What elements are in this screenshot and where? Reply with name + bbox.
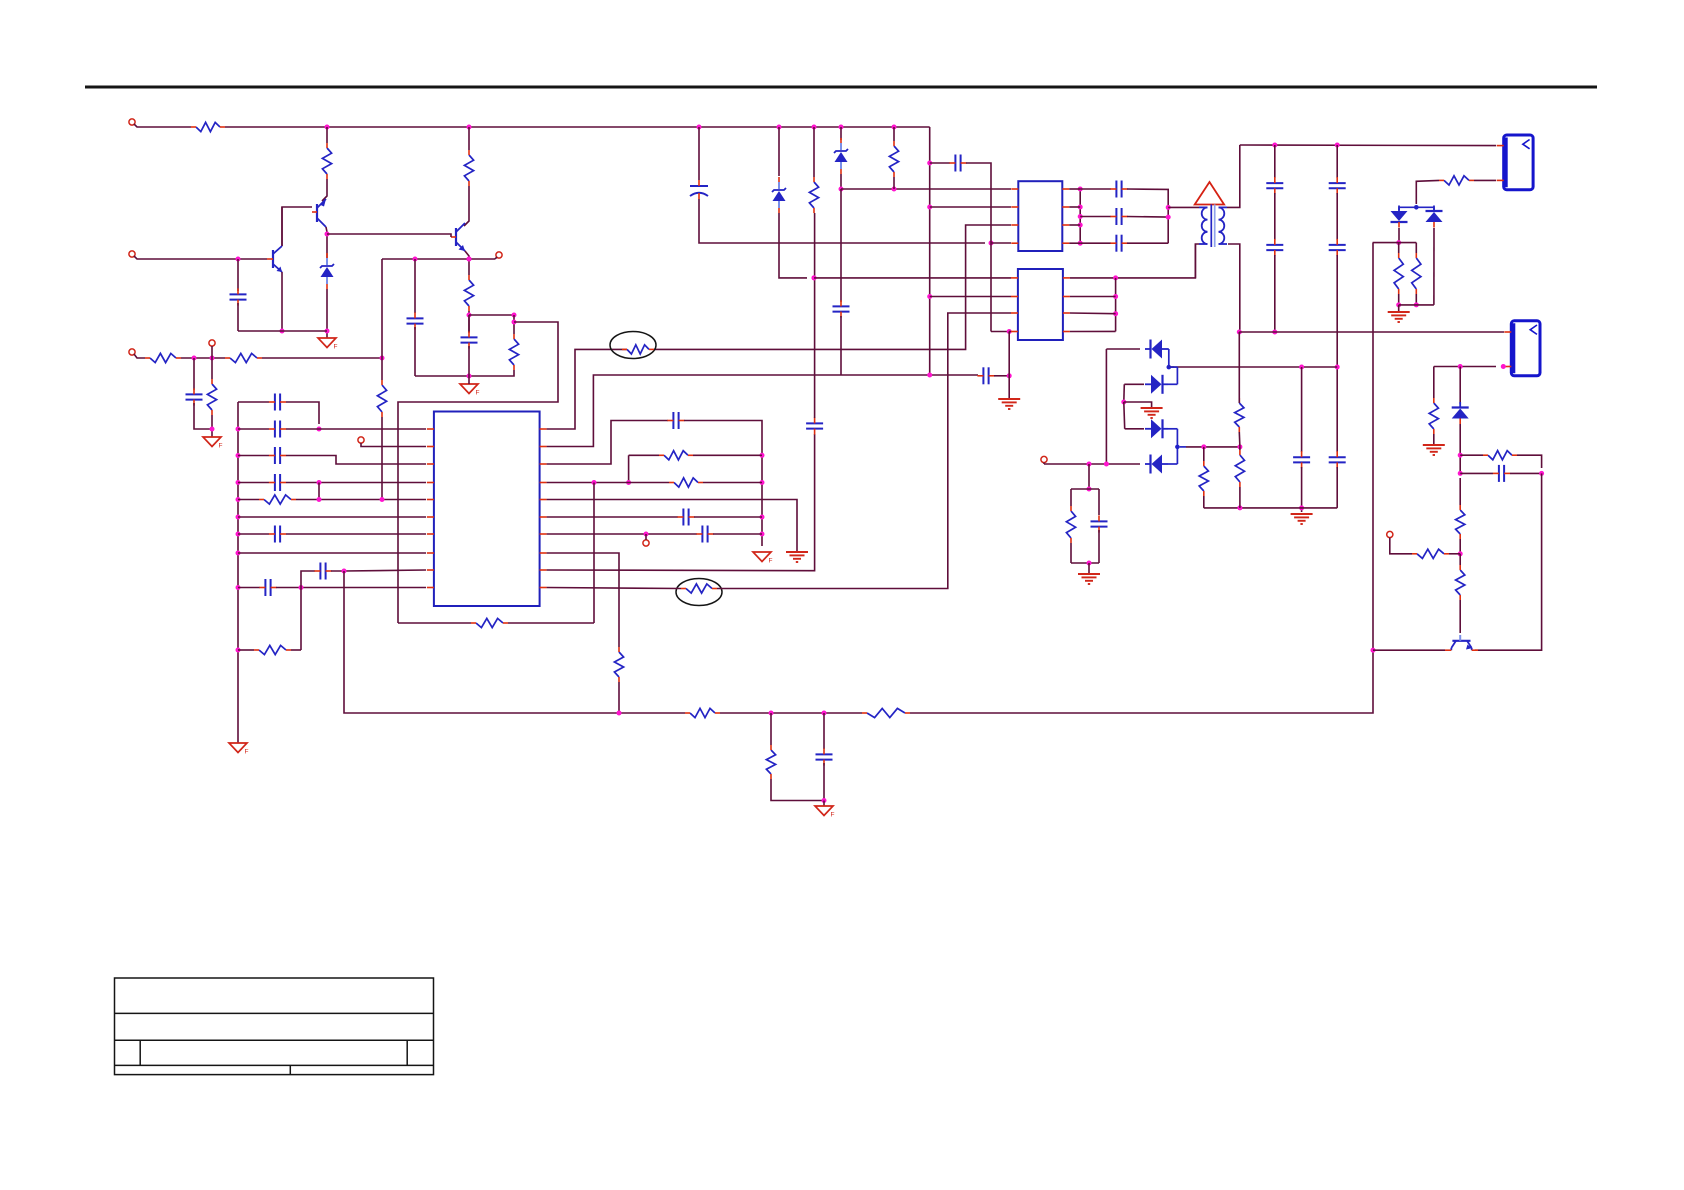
wire row331 — [991, 331, 1009, 333]
IC U1 right pin 1 — [540, 428, 547, 430]
ground E2 — [998, 399, 1020, 409]
junction Q3 emitter row — [467, 257, 472, 262]
IC U2 left pin 4 — [1011, 242, 1018, 244]
IC U3 right pin 2 — [1063, 296, 1070, 298]
junction x929 y163 — [927, 161, 932, 166]
IC U2 right pin 2 — [1062, 206, 1069, 208]
transformer T1 top leads — [1199, 206, 1227, 208]
capacitor C5 — [269, 394, 286, 411]
wire x415 col — [414, 259, 416, 313]
junction row367 x1301 — [1299, 365, 1304, 370]
capacitor C12 — [977, 367, 994, 384]
wire row243 to IC1 — [991, 242, 1011, 244]
IC U2 left pin 2 — [1011, 206, 1018, 208]
wire busrow650 a — [238, 649, 254, 651]
diode D7 — [1452, 402, 1469, 424]
IC U2 box — [1018, 181, 1062, 251]
wire x779 a — [778, 127, 780, 176]
wire x1541 col — [1475, 473, 1542, 650]
wire top rail y127 — [225, 126, 930, 128]
junction row189 x841 — [839, 187, 844, 192]
svg-text:F: F — [245, 749, 249, 756]
wire x1274 b — [1274, 193, 1276, 240]
wire x514 branch — [513, 315, 515, 334]
wire net446 — [547, 127, 930, 447]
wire x382 column — [381, 259, 383, 380]
junction row189 x894 — [892, 187, 897, 192]
wire row242 — [1373, 242, 1417, 244]
wire x1274 a — [1274, 145, 1276, 178]
resistor R8 — [207, 379, 216, 415]
junction x1168 y217 — [1166, 215, 1171, 220]
wire D1 bottom — [1398, 228, 1400, 243]
wire x1301 col b — [1301, 467, 1303, 512]
transformer T1 windings — [1202, 204, 1225, 247]
junction row464 x1106 — [1104, 462, 1109, 467]
svg-text:F: F — [219, 443, 223, 450]
wire row145 — [1240, 144, 1496, 147]
capacitor C10 — [259, 579, 276, 596]
wire cap C1 bottom — [237, 303, 239, 331]
wire row623 b — [508, 622, 594, 624]
wire busrow553 — [238, 552, 426, 554]
wire net482 b — [703, 482, 762, 484]
wire row367 — [1169, 366, 1337, 368]
IC U1 left pin 2 — [427, 446, 434, 448]
capacitor C17 — [816, 748, 833, 765]
junction x1115 y313 — [1113, 311, 1118, 316]
resistor R3 — [464, 150, 473, 186]
junction row278 x814 — [812, 275, 817, 280]
wire x301 up — [301, 571, 315, 588]
wire R3 to Q3 collector — [464, 186, 469, 226]
wire x1434 col — [1433, 367, 1435, 399]
junction row499 x382 — [380, 497, 385, 502]
junction left bus y534 — [236, 532, 241, 537]
junction row145 x1337 — [1335, 143, 1340, 148]
resistor R9 — [259, 495, 296, 504]
IC U1 left pin 7 — [427, 533, 434, 535]
junction x319 y429 — [317, 427, 322, 432]
wire P2 to Q2 base — [134, 256, 267, 259]
wire row455r a — [629, 454, 659, 456]
wire x1106 col — [1105, 349, 1107, 464]
resistor R31 — [1456, 505, 1465, 539]
wire RC left a — [1070, 489, 1072, 506]
wire x1460 a — [1459, 367, 1461, 405]
wire row189 — [841, 188, 1011, 190]
junction row367 x1460 — [1458, 364, 1463, 369]
svg-text:F: F — [334, 344, 338, 351]
junction left bus y553 — [236, 551, 241, 556]
wire row402 gnd — [1124, 402, 1152, 407]
junction x1398 y305 — [1396, 302, 1401, 307]
wire R25 top — [1203, 447, 1205, 461]
capacitor C1 — [230, 288, 247, 305]
wire blue D1 top — [1399, 207, 1434, 210]
IC U3 right pin 3 — [1063, 312, 1070, 314]
wire Q2 collector — [281, 207, 283, 246]
IC U3 left pin 4 — [1011, 331, 1018, 333]
wire row332 — [1239, 331, 1504, 333]
resistor R33 — [1412, 549, 1449, 558]
wire row375 east — [930, 374, 978, 376]
junction row278 x1115 — [1113, 275, 1118, 280]
junction row713 x771 — [769, 711, 774, 716]
wire x771 b — [771, 779, 824, 801]
wire row358 mid — [181, 357, 225, 359]
capacitor C23 — [1266, 177, 1283, 194]
wire R27 top — [1238, 398, 1240, 403]
wire caprow243 b — [1127, 242, 1168, 244]
wire row446 right — [1186, 446, 1240, 448]
junction row358 x212 — [210, 356, 215, 361]
connector J2 — [1504, 321, 1540, 376]
wire R4 to node315 — [468, 311, 470, 333]
wire U3 r2 — [1070, 296, 1116, 298]
resistor R23 — [1412, 253, 1421, 294]
wire x382 column b — [381, 417, 383, 500]
ground E6 — [1078, 574, 1100, 584]
junction top rail x699 — [697, 125, 702, 130]
junction row713 x824 — [822, 711, 827, 716]
junction row508 x1239 — [1237, 505, 1242, 510]
junction Q1 emitter node — [325, 232, 330, 237]
junction row713 x619 — [617, 711, 622, 716]
ground E4 — [1388, 312, 1410, 322]
junction x1301 y508 — [1299, 505, 1304, 510]
resistor R4 — [464, 275, 473, 311]
junction x1080 y207 — [1078, 205, 1083, 210]
junction x1009 y331 — [1007, 329, 1012, 334]
wire P6 to pin2 — [361, 443, 426, 447]
wire RC right a — [1098, 489, 1100, 515]
zener ZD1 — [320, 253, 334, 289]
wire caprow243 a — [1080, 242, 1111, 244]
junction top rail x327 — [325, 125, 330, 130]
resistor R6 — [145, 353, 181, 362]
wire row163 a — [930, 162, 950, 164]
IC U1 right pin 5 — [540, 499, 547, 501]
wire x824 a — [823, 713, 825, 749]
wire busrow588 a — [238, 587, 260, 589]
wire busrowA b — [286, 402, 319, 424]
wire busrow429 b — [286, 428, 319, 430]
wire busrow534 b — [286, 533, 426, 535]
terminal P4 — [129, 349, 135, 355]
wire C4 to gnd row — [194, 403, 212, 429]
junction x1080 y243.2 — [1078, 241, 1083, 246]
wire x894 b — [893, 177, 895, 189]
junction row534 x646 — [644, 532, 649, 537]
diode D4 — [1145, 375, 1168, 394]
capacitor C8 — [269, 474, 286, 491]
wire x194 down — [193, 358, 195, 390]
wire net482 — [547, 482, 669, 484]
IC U1 left pin 1 — [427, 428, 434, 430]
wire busrow650 b — [291, 649, 301, 651]
wire R32 top — [1459, 554, 1461, 565]
wire net464 b — [684, 421, 762, 547]
junction row446 x1203 — [1201, 444, 1206, 449]
junction left bus y517 — [236, 515, 241, 520]
wire x1124 col b — [1123, 402, 1126, 429]
IC U1 right pin 9 — [540, 569, 547, 571]
wire R24 to connector — [1474, 179, 1496, 181]
IC U2 right pin 1 — [1062, 188, 1069, 190]
junction x762 y482 — [760, 480, 765, 485]
wire U2 r1 — [1069, 188, 1080, 190]
diode D5 — [1145, 419, 1168, 438]
diode D3 — [1145, 340, 1168, 359]
wire x841 b — [840, 174, 842, 189]
wire net429 b — [654, 225, 1011, 349]
wire P7 stub — [645, 534, 647, 540]
wire Q1 base loop — [282, 207, 312, 246]
IC U1 left pin 8 — [427, 552, 434, 554]
IC U2 right pin 3 — [1062, 224, 1069, 226]
capacitor C2 — [407, 312, 424, 329]
wire row429 to pin1 — [319, 428, 426, 430]
svg-text:F: F — [769, 558, 773, 565]
wire x841 lower — [840, 189, 842, 302]
junction x1080 y216.5 — [1078, 214, 1083, 219]
wire rail to R2 — [326, 127, 328, 143]
capacitor C28 — [1293, 451, 1310, 468]
wire RC box top — [1071, 488, 1099, 490]
wire R14 to row713 — [618, 682, 620, 713]
junction x514 y315 — [512, 313, 517, 318]
junction x594 y482 — [592, 480, 597, 485]
wire row473 b — [1510, 472, 1542, 474]
junction x1089 y489 — [1087, 487, 1092, 492]
transistor Q1 — [312, 199, 326, 227]
IC U3 right pin 1 — [1063, 277, 1070, 279]
wire busrow499 a — [238, 499, 259, 501]
junction x814 y278 — [812, 275, 817, 280]
wire row305 — [1399, 304, 1434, 306]
junction x762 y534 — [760, 532, 765, 537]
wire row713 b — [720, 712, 862, 714]
wire net588 b — [717, 313, 1011, 589]
svg-text:F: F — [476, 390, 480, 397]
wire caprow216 b — [1127, 216, 1168, 219]
wire ZD1 to gnd node — [326, 289, 328, 338]
wire row508 — [1204, 507, 1337, 509]
wire U2 r2 — [1069, 206, 1080, 208]
junction x1460 y473 — [1458, 471, 1463, 476]
blue node dot D1-D2 — [1414, 205, 1419, 210]
junction x1009 y375 — [1007, 373, 1012, 378]
wire row259 to P3 — [495, 257, 497, 259]
junction row367 conn — [1501, 364, 1506, 369]
wire gnd stub — [468, 376, 470, 384]
wire x1274 c — [1274, 255, 1276, 332]
terminal P6 — [358, 437, 364, 443]
IC U1 box — [434, 412, 540, 607]
wire R5 to row376 — [415, 370, 514, 376]
junction row145 x1274 — [1272, 143, 1277, 148]
IC U1 left pin 4 — [427, 482, 434, 484]
IC U2 right pin 4 — [1062, 242, 1069, 244]
ground E5 — [1141, 408, 1163, 418]
IC U1 right pin 10 — [540, 587, 547, 589]
capacitor C21 — [1110, 208, 1127, 225]
junction x929 y296 — [927, 294, 932, 299]
junction x1080 y225 — [1078, 223, 1083, 228]
IC U2 left pin 3 — [1011, 224, 1018, 226]
wire row384 — [1124, 383, 1144, 385]
junction row588 x301 — [299, 585, 304, 590]
wire R31 top — [1459, 478, 1461, 505]
capacitor C20 — [1110, 181, 1127, 198]
wire secondary top — [1227, 145, 1240, 207]
black ellipse 2 — [676, 579, 722, 606]
junction gnd node x212 — [210, 427, 215, 432]
wire RC right b — [1098, 530, 1100, 563]
resistor R32 — [1456, 565, 1465, 600]
resistor R13 — [669, 478, 703, 487]
junction row259 x469 — [467, 257, 472, 262]
IC U3 box — [1018, 269, 1063, 340]
resistor R28 — [1066, 506, 1075, 543]
resistor R21 — [889, 141, 898, 177]
junction left bus y455.5 — [236, 453, 241, 458]
wire x824 b — [823, 763, 825, 801]
wire x699 b — [699, 199, 985, 243]
junction x1239 y332 — [1237, 330, 1242, 335]
title block — [115, 978, 434, 1075]
blue node dot D5-D6 — [1175, 445, 1180, 450]
resistor R1 — [191, 122, 225, 131]
wire x841 a — [840, 127, 842, 140]
wire P9 down — [1390, 538, 1412, 554]
zener ZD2 — [772, 177, 786, 213]
resistor R27 — [1235, 398, 1244, 432]
wire R31 bottom — [1459, 539, 1461, 554]
connector J1 — [1497, 135, 1533, 190]
wire busrow455 b — [286, 456, 426, 465]
wire row367 start — [1169, 366, 1174, 368]
capacitor C26 — [1329, 239, 1346, 256]
junction row358 x194 — [192, 356, 197, 361]
IC U3 left pin 2 — [1011, 296, 1018, 298]
capacitor C6 — [269, 421, 286, 438]
wire busrow499 b — [296, 499, 426, 501]
junction row376 x469 — [467, 374, 472, 379]
resistor R2 — [322, 143, 331, 179]
junction top rail x469 — [467, 125, 472, 130]
wire node315 right — [469, 314, 514, 316]
wire R23 bottom — [1415, 294, 1417, 305]
junction x1168 y207 — [1166, 205, 1171, 210]
junction row259 x415 — [413, 257, 418, 262]
wire row650 — [1373, 649, 1445, 651]
resistor R15 — [809, 177, 818, 213]
wire RC gnd stub — [1088, 563, 1090, 573]
capacitor C15 — [696, 526, 713, 543]
wire primary top — [1168, 206, 1199, 208]
wire R27 bottom — [1238, 432, 1241, 447]
wire Q2 emitter down — [281, 272, 283, 331]
wire cap C3 top — [468, 315, 470, 332]
junction x514 y322 — [512, 320, 517, 325]
resistor R18 — [685, 708, 720, 717]
wire x841 lower b — [840, 316, 842, 375]
wire blue D5 — [1168, 429, 1177, 447]
junction left bus y482.5 — [236, 480, 241, 485]
junction row243 x991 — [989, 241, 994, 246]
capacitor C22 — [1110, 235, 1127, 252]
zener ZD3 — [834, 138, 848, 174]
resistor R12 — [659, 451, 693, 460]
wire bottom link — [238, 330, 327, 332]
resistor R11 (circled) — [622, 345, 654, 354]
ground F1 — [318, 338, 338, 351]
wire row163 b — [966, 163, 991, 332]
wire R29 bottom — [1433, 434, 1435, 444]
junction x1337 y367 — [1335, 365, 1340, 370]
wire x771 a — [770, 713, 772, 745]
wire net588 a — [547, 588, 681, 589]
wire x344 down — [344, 571, 346, 713]
transformer T1 bottom leads — [1199, 243, 1227, 245]
wire x594 down — [593, 483, 595, 624]
diode D6 — [1145, 455, 1168, 474]
wire net570 — [547, 434, 815, 571]
wire busrow455 a — [238, 455, 269, 457]
terminal P9 — [1387, 531, 1393, 537]
wire secondary bottom — [1228, 244, 1240, 332]
ground F4 — [229, 743, 249, 756]
junction Q2 emitter bottom — [280, 329, 285, 334]
capacitor C13 — [667, 412, 684, 429]
wire RC box bottom — [1071, 562, 1099, 564]
wire x1460 b — [1459, 424, 1461, 473]
IC U1 left pin 9 — [427, 569, 434, 571]
ground E7 — [1423, 445, 1445, 455]
IC U1 right pin 2 — [540, 446, 547, 448]
resistor R5 — [509, 334, 518, 370]
junction x1373 y650 — [1371, 648, 1376, 653]
wire C3 bottom — [468, 346, 470, 376]
capacitor C24 — [1266, 239, 1283, 256]
wire row322 — [398, 322, 558, 623]
wire blue D3 — [1167, 349, 1170, 367]
junction x1460 y455 — [1458, 453, 1463, 458]
wire x1337 b — [1336, 193, 1338, 240]
capacitor C27 — [1329, 451, 1346, 468]
wire busrowA a — [238, 401, 269, 403]
junction top rail x894 — [892, 125, 897, 130]
wire x319 step — [318, 483, 320, 500]
junction x1089 y563 — [1087, 561, 1092, 566]
wire R23 top — [1415, 243, 1417, 253]
wire P5 stub — [211, 346, 213, 358]
wire x1089 col — [1088, 464, 1090, 489]
ground F3 — [203, 437, 223, 450]
IC U1 right pin 7 — [540, 533, 547, 535]
wire U2 r4 — [1069, 242, 1080, 244]
wire net464 — [547, 421, 668, 465]
wire caprow189 a — [1080, 188, 1111, 190]
resistor R17 — [471, 618, 508, 627]
junction node315 — [467, 313, 472, 318]
capacitor C3 — [461, 331, 478, 348]
wire x212 down — [211, 358, 213, 379]
wire primary bottom — [1195, 244, 1199, 278]
wire row464 mid — [1044, 463, 1140, 465]
